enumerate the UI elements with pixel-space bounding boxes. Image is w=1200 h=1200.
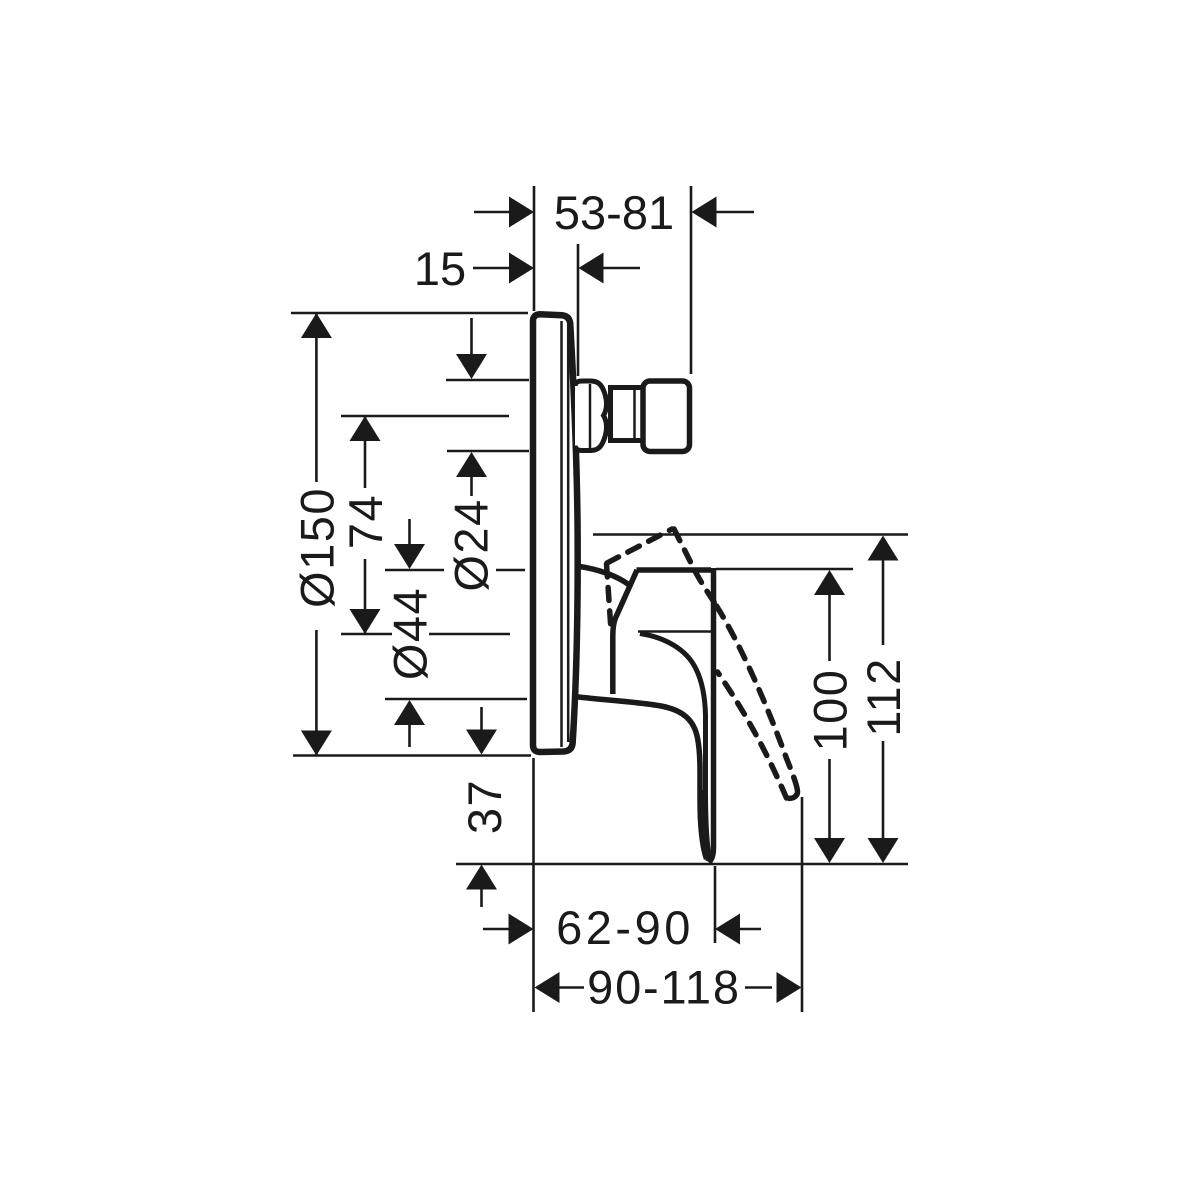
O44 lower arrow tail — [408, 724, 411, 747]
O24 upper arrow tail — [470, 318, 473, 356]
O150 bottom extension line — [293, 754, 531, 757]
arrowhead 15 right (points left) — [579, 253, 604, 284]
adapter nut — [643, 381, 690, 452]
dashed handle: lever outer edge — [717, 606, 798, 791]
100 dimension line lower — [828, 759, 831, 840]
faceplate (escutcheon) outline — [533, 314, 578, 752]
arrowhead 37 top (points down, from above) — [466, 730, 497, 755]
handle base top edge (dips from plate to slant edge) — [577, 566, 630, 586]
adapter cylinder contour line — [633, 390, 636, 438]
O44 upper arrow tail — [408, 519, 411, 546]
62-90 dimension left tail — [483, 928, 509, 931]
svg-text:Ø44: Ø44 — [384, 587, 437, 680]
faceplate inner contour line 2 — [567, 325, 570, 742]
arrowhead 53-81 left (points right) — [509, 197, 534, 228]
svg-text:15: 15 — [414, 242, 466, 295]
100 dimension line upper — [828, 594, 831, 661]
100 top extension line — [716, 568, 853, 571]
O44 bottom extension line — [385, 698, 527, 701]
svg-text:112: 112 — [857, 657, 910, 736]
extension line below dashed lever tip (x=802) — [801, 797, 804, 1012]
arrowhead O24 top (points down, from above) — [456, 354, 487, 379]
svg-text:Ø150: Ø150 — [290, 487, 343, 608]
arrowhead 53-81 right (points left) — [692, 197, 717, 228]
arrowhead O44 top (points down, from above) — [394, 544, 425, 569]
arrowhead 112 top (points up) — [868, 536, 899, 561]
arrowhead 90-118 right (points right) — [777, 972, 802, 1003]
90-118 dimension left tail — [558, 986, 584, 989]
svg-text:74: 74 — [339, 494, 392, 549]
dimension 15 right tail — [603, 267, 640, 270]
74 dimension line upper — [364, 417, 367, 488]
112 top extension line — [593, 533, 908, 536]
arrowhead 112 bottom (points down) — [868, 838, 899, 863]
arrowhead 15 left (points right) — [509, 253, 534, 284]
74 dimension line lower — [364, 559, 367, 633]
svg-text:Ø24: Ø24 — [445, 498, 498, 591]
handle inner horizontal contour — [638, 630, 711, 633]
arrowhead O150 bottom (points down) — [301, 731, 332, 756]
arrowhead 62-90 left (points right, from outside) — [509, 914, 534, 945]
svg-text:53-81: 53-81 — [554, 186, 674, 239]
62-90 dimension right tail — [740, 928, 761, 931]
O150 dimension line upper — [315, 313, 318, 482]
dashed handle: lever tip — [787, 791, 798, 798]
arrowhead 74 top (points up) — [350, 416, 381, 441]
O150 top extension line — [291, 312, 528, 315]
arrowhead 62-90 right (points left, from outside) — [715, 914, 740, 945]
dimension 15 tail — [473, 267, 511, 270]
arrowhead 100 bottom (points down) — [814, 838, 845, 863]
O24 top extension line — [446, 379, 529, 382]
arrowhead O150 top (points up) — [301, 313, 332, 338]
extension line: faceplate front (top, x=534) — [533, 186, 536, 311]
dashed handle: lever inner edge — [718, 672, 787, 798]
arrowhead O44 bottom (points up, from below) — [394, 700, 425, 725]
dashed handle: head top-right edge — [674, 529, 717, 606]
svg-text:90-118: 90-118 — [587, 961, 741, 1014]
bottom reference line — [456, 863, 908, 866]
dimension 53-81 line left tail — [474, 211, 510, 214]
dashed handle alternate position: head left edge — [607, 564, 612, 630]
extension line below faceplate (x=533.5) — [532, 758, 535, 1012]
extension line below lever tip (x=715) — [714, 866, 717, 943]
extension line: wall plane (x=578) — [577, 244, 580, 376]
37 lower arrow tail — [480, 888, 483, 907]
faceplate inner contour line 1 — [560, 321, 563, 747]
arrowhead 37 bottom (points up, from below) — [466, 865, 497, 890]
74 top extension line — [341, 415, 509, 418]
O24 lower arrow tail — [470, 475, 473, 496]
adapter flange contour line — [589, 384, 592, 448]
handle head left slanted edge — [613, 570, 637, 694]
37 upper arrow tail — [480, 707, 483, 730]
handle base bottom edge sweeping into lever — [574, 697, 707, 860]
arrowhead 74 bottom (points down) — [350, 609, 381, 634]
112 dimension line lower — [882, 741, 885, 840]
svg-text:100: 100 — [804, 669, 857, 752]
handle lever tip fill — [698, 790, 712, 861]
handle head top edge — [637, 567, 712, 573]
handle outer (right) edge down to tip — [709, 568, 714, 863]
74 bottom extension line (broken by O44 text) — [341, 633, 392, 636]
adapter flange (wall connection) — [575, 381, 607, 451]
arrowhead 100 top (points up) — [814, 570, 845, 595]
dimension 53-81 right tail — [716, 211, 754, 214]
O24 bottom extension line — [447, 450, 529, 453]
extension line: adapter end (x=691) — [690, 186, 693, 374]
handle inner curve (lever front edge) — [640, 634, 710, 858]
90-118 dimension right tail — [745, 986, 772, 989]
adapter cylinder — [611, 388, 647, 441]
O150 dimension line lower — [315, 630, 318, 756]
112 dimension line upper — [882, 559, 885, 645]
arrowhead O24 bottom (points up, from below) — [456, 452, 487, 477]
dashed handle: head top-left edge — [607, 529, 672, 563]
svg-text:62-90: 62-90 — [556, 901, 694, 954]
O44 top extension line (broken by O24 text) — [385, 569, 444, 572]
svg-text:37: 37 — [458, 779, 511, 834]
arrowhead 90-118 left (points left) — [535, 972, 560, 1003]
